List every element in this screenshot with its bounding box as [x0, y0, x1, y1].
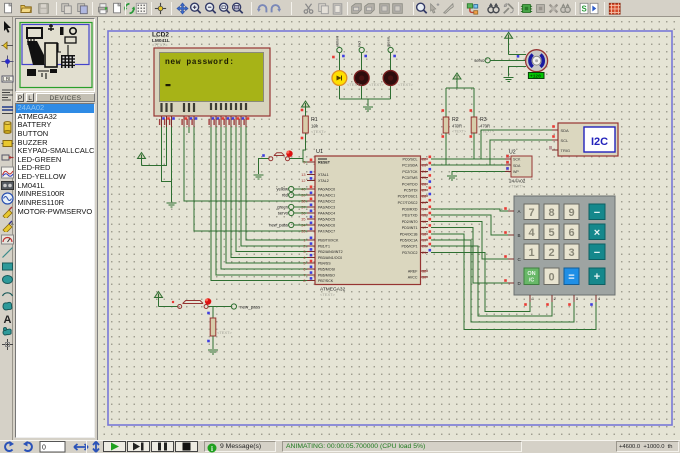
svg-text:AREF: AREF [408, 270, 418, 274]
svg-text:LBL: LBL [3, 77, 12, 83]
svg-text:35: 35 [301, 218, 305, 222]
svg-text:+: + [594, 271, 600, 283]
svg-text:red: red [282, 193, 289, 198]
svg-text:<TEXT>: <TEXT> [311, 129, 327, 134]
svg-text:22: 22 [422, 158, 426, 162]
svg-text:21: 21 [422, 251, 426, 255]
svg-text:I2C: I2C [591, 136, 608, 148]
svg-text:PA6/ADC6: PA6/ADC6 [318, 224, 335, 228]
svg-text:PD3/INT1: PD3/INT1 [402, 226, 418, 230]
svg-text:PD5/OC1A: PD5/OC1A [400, 239, 418, 243]
svg-text:1: 1 [303, 239, 305, 243]
svg-text:PB4/SS: PB4/SS [318, 262, 331, 266]
svg-text:yellow: yellow [276, 187, 289, 192]
svg-text:R1: R1 [311, 117, 318, 123]
svg-text:A: A [3, 314, 11, 325]
svg-text:<TEXT>: <TEXT> [398, 82, 414, 87]
svg-text:PB7/SCK: PB7/SCK [318, 279, 334, 283]
svg-text:U2: U2 [509, 150, 516, 156]
svg-text:PC7/TOSC2: PC7/TOSC2 [398, 201, 418, 205]
svg-text:PC0/SCL: PC0/SCL [403, 158, 418, 162]
svg-text:19: 19 [422, 239, 426, 243]
svg-text:5: 5 [303, 262, 305, 266]
svg-text:9: 9 [568, 207, 574, 219]
svg-text:LCD2: LCD2 [152, 32, 169, 39]
svg-text:servo: servo [474, 58, 485, 63]
svg-text:XTAL1: XTAL1 [318, 173, 329, 177]
svg-text:PA1/ADC1: PA1/ADC1 [318, 194, 335, 198]
svg-text:yellow: yellow [334, 36, 339, 47]
svg-text:AVCC: AVCC [408, 276, 418, 280]
svg-text:R2: R2 [452, 117, 459, 123]
svg-text:red: red [357, 41, 362, 47]
svg-text:PC3/TMS: PC3/TMS [402, 176, 418, 180]
svg-text:10k: 10k [311, 124, 319, 129]
svg-text:4: 4 [303, 256, 305, 260]
svg-text:=: = [568, 272, 574, 284]
svg-text:new password:: new password: [165, 58, 235, 67]
svg-text:PB3/AIN1/OC0: PB3/AIN1/OC0 [318, 256, 342, 260]
svg-text:1: 1 [532, 297, 534, 301]
svg-text:PD6/ICP1: PD6/ICP1 [402, 245, 418, 249]
svg-text:S: S [581, 5, 586, 14]
svg-text:3: 3 [568, 247, 574, 259]
svg-text:27: 27 [422, 189, 426, 193]
svg-text:PB6/MISO: PB6/MISO [318, 273, 335, 277]
svg-text:B: B [518, 233, 521, 238]
svg-text:SDA: SDA [513, 164, 521, 168]
svg-text:PC6/TOSC1: PC6/TOSC1 [398, 195, 418, 199]
svg-text:PB2/AIN0/INT2: PB2/AIN0/INT2 [318, 250, 343, 254]
svg-text:i: i [211, 445, 213, 453]
svg-text:PA7/ADC7: PA7/ADC7 [318, 230, 335, 234]
svg-text:4: 4 [528, 227, 535, 239]
svg-text:PD0/RXD: PD0/RXD [402, 208, 418, 212]
svg-text:1: 1 [528, 247, 534, 259]
svg-text:3: 3 [303, 250, 305, 254]
svg-text:17: 17 [422, 226, 426, 230]
svg-text:<TEXT>: <TEXT> [347, 82, 363, 87]
svg-text:28: 28 [422, 195, 426, 199]
svg-text:2: 2 [303, 244, 305, 248]
svg-text:4: 4 [598, 297, 600, 301]
svg-text:PA5/ADC5: PA5/ADC5 [318, 218, 335, 222]
svg-text:U1: U1 [316, 149, 323, 155]
svg-text:new_pass: new_pass [269, 223, 288, 228]
svg-text:470R: 470R [452, 124, 462, 129]
svg-text:<TEXT>: <TEXT> [320, 292, 336, 297]
svg-text:PC2/TCK: PC2/TCK [402, 170, 418, 174]
svg-text:2: 2 [548, 247, 554, 259]
svg-text:/C: /C [529, 278, 535, 284]
svg-text:26: 26 [422, 182, 426, 186]
svg-text:<TEXT>: <TEXT> [217, 330, 233, 335]
svg-text:30: 30 [422, 276, 426, 280]
svg-text:PA0/ADC0: PA0/ADC0 [318, 188, 335, 192]
svg-text:24: 24 [422, 170, 426, 174]
svg-text:PC4/TDO: PC4/TDO [402, 182, 418, 186]
svg-text:PC1/SDA: PC1/SDA [402, 164, 418, 168]
svg-text:PD1/TXD: PD1/TXD [402, 214, 418, 218]
svg-text:PB1/T1: PB1/T1 [318, 244, 330, 248]
svg-text:PC5/TDI: PC5/TDI [404, 189, 418, 193]
svg-text:6: 6 [303, 268, 305, 272]
svg-text:servo: servo [278, 211, 289, 216]
svg-text:green: green [386, 37, 391, 47]
svg-text:PA2/ADC2: PA2/ADC2 [318, 200, 335, 204]
svg-text:PB0/T0/XCK: PB0/T0/XCK [318, 239, 339, 243]
svg-text:−: − [594, 247, 600, 259]
svg-text:PB5/MOSI: PB5/MOSI [318, 268, 335, 272]
svg-text:8: 8 [548, 207, 554, 219]
svg-text:×: × [594, 227, 600, 239]
svg-text:+120: +120 [530, 74, 541, 80]
svg-text:PD7/OC2: PD7/OC2 [402, 251, 417, 255]
svg-text:0: 0 [42, 445, 46, 452]
svg-text:18: 18 [422, 232, 426, 236]
svg-text:470R: 470R [480, 124, 490, 129]
svg-text:<TEXT>: <TEXT> [509, 184, 525, 189]
svg-text:14: 14 [422, 208, 426, 212]
svg-text:32: 32 [422, 270, 426, 274]
svg-text:5: 5 [548, 227, 554, 239]
svg-text:XTAL2: XTAL2 [318, 179, 329, 183]
svg-text:<TEXT>: <TEXT> [152, 43, 168, 48]
svg-text:SCK: SCK [513, 158, 521, 162]
svg-text:6: 6 [568, 227, 574, 239]
svg-text:SCL: SCL [561, 138, 570, 143]
svg-text:7: 7 [528, 207, 534, 219]
svg-text:38: 38 [301, 200, 305, 204]
svg-text:8: 8 [303, 279, 305, 283]
svg-text:<TEXT>: <TEXT> [369, 82, 385, 87]
svg-text:−: − [594, 207, 600, 219]
svg-text:PA4/ADC4: PA4/ADC4 [318, 212, 335, 216]
svg-text:3: 3 [576, 297, 578, 301]
svg-text:29: 29 [422, 201, 426, 205]
svg-text:WP: WP [513, 170, 519, 174]
svg-text:2: 2 [554, 297, 556, 301]
svg-text:9: 9 [303, 161, 305, 165]
svg-text:RESET: RESET [318, 161, 331, 165]
svg-text:15: 15 [422, 214, 426, 218]
svg-text:green: green [277, 205, 288, 210]
svg-text:20: 20 [422, 245, 426, 249]
svg-text:R3: R3 [480, 117, 487, 123]
svg-text:PA3/ADC3: PA3/ADC3 [318, 206, 335, 210]
svg-text:PD2/INT0: PD2/INT0 [402, 220, 418, 224]
svg-text:7: 7 [303, 273, 305, 277]
svg-text:23: 23 [422, 164, 426, 168]
svg-text:<TEXT>: <TEXT> [452, 130, 467, 134]
svg-text:ON: ON [527, 271, 535, 277]
svg-text:12: 12 [301, 179, 305, 183]
svg-text:A: A [518, 209, 521, 214]
svg-text:33: 33 [301, 230, 305, 234]
svg-text:TRIG: TRIG [561, 148, 571, 153]
svg-text:25: 25 [422, 176, 426, 180]
svg-text:PD4/OC1B: PD4/OC1B [400, 232, 418, 236]
svg-text:16: 16 [422, 220, 426, 224]
svg-text:13: 13 [301, 173, 305, 177]
svg-text:SDA: SDA [561, 128, 570, 133]
svg-text:new_pass: new_pass [240, 305, 261, 310]
svg-text:0: 0 [548, 272, 554, 284]
